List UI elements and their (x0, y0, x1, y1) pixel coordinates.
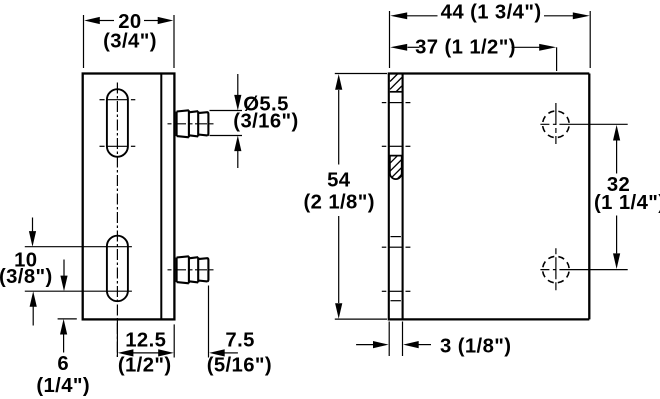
hole B1 crosshair (555, 103, 557, 146)
section center marks (upper slot arc centers) (382, 103, 411, 147)
slot S1 (top slotted hole) (107, 89, 128, 157)
dimension 7.5 (5/16") arrow (208, 286, 210, 358)
dimension 10 arrows (32, 218, 34, 233)
dimension 20 (3/4") extension lines (84, 15, 175, 68)
plate right edge (588, 74, 590, 320)
hole B2 crosshair (555, 248, 557, 291)
slot S1 top arc center mark (100, 99, 136, 101)
slot S1 bottom arc center mark (100, 145, 136, 147)
hatch area H2 (with rounded bottom) (390, 156, 402, 180)
svg-text:7.5: 7.5 (225, 330, 254, 352)
plate outline (side view) (83, 74, 175, 320)
section strip left edge (388, 74, 390, 320)
peg P2 (lower barbed dowel) (177, 256, 209, 283)
peg P1 (upper barbed dowel) (177, 110, 209, 137)
svg-text:3 (1/8"): 3 (1/8") (440, 336, 511, 358)
section strip right line (402, 74, 404, 320)
vertical centerline through slots (116, 83, 118, 358)
peg P2 centerline (168, 269, 214, 271)
section center marks (lower slot arc centers) (382, 247, 411, 291)
dimension 6 (1/4") arrows (63, 260, 65, 277)
svg-text:6: 6 (57, 353, 69, 375)
peg P1 centerline (168, 123, 214, 125)
dimension 32 (1 1/4") line and arrows (616, 141, 618, 174)
svg-text:(5/16"): (5/16") (207, 355, 272, 377)
dimension 37 (1 1/2") line and arrows (408, 46, 420, 48)
dimension Ø5.5 arrows (237, 74, 239, 95)
dimension 10 (3/8") lines through slot arc centers (25, 247, 132, 292)
dimension 44 line and arrows (407, 15, 438, 17)
svg-text:(1/2"): (1/2") (118, 355, 172, 377)
svg-text:(3/4"): (3/4") (103, 31, 157, 53)
svg-text:(2 1/8"): (2 1/8") (303, 192, 374, 214)
dimension 3 (1/8") extension lines (389, 322, 402, 357)
slot S2 (bottom slotted hole) (107, 236, 128, 302)
svg-text:(3/8"): (3/8") (0, 266, 53, 288)
svg-text:(3/16"): (3/16") (233, 111, 298, 133)
svg-text:37 (1 1/2"): 37 (1 1/2") (415, 37, 516, 59)
hatch area H1 (top of section) (390, 91, 402, 93)
plate top edge (388, 72, 590, 74)
svg-text:44 (1 3/4"): 44 (1 3/4") (441, 2, 542, 24)
svg-text:(1/4"): (1/4") (36, 375, 90, 397)
svg-text:(1 1/4"): (1 1/4") (594, 192, 660, 214)
plate bottom edge (388, 318, 590, 320)
hidden dashes for lower slot extents (391, 237, 401, 301)
bottom edge extension (left, for 54 dim) (335, 318, 387, 320)
dimension 54 (2 1/8") extension and line (335, 73, 387, 75)
dimension 20 (3/4") line and arrows (99, 20, 159, 22)
bottom edge extension line (left) (58, 318, 77, 320)
svg-text:54: 54 (327, 169, 351, 191)
dimension 12.5 (1/2") line with arrows (116, 320, 118, 357)
plate inner face line (160, 74, 162, 320)
hole B1 (top, dashed circle) (543, 111, 570, 138)
svg-text:12.5: 12.5 (125, 330, 166, 352)
dimension 44 (1 3/4") extension lines (390, 11, 591, 68)
dimension Ø5.5 (3/16") extension lines (210, 111, 243, 136)
dimension 37 extension line (hole centerline up) (556, 47, 558, 71)
hole B2 (bottom, dashed circle) (543, 256, 570, 283)
dimension 3 arrows (356, 344, 373, 346)
